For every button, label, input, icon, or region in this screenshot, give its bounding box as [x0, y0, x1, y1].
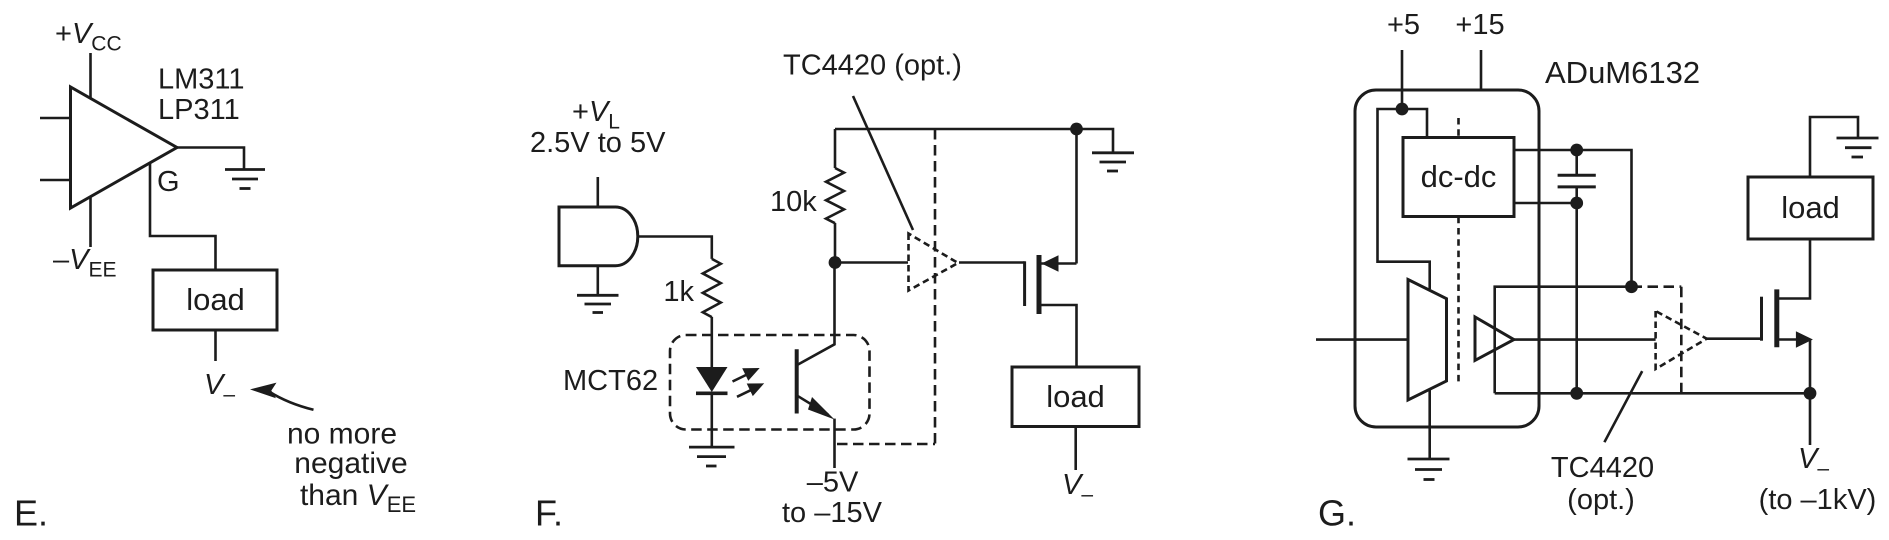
- svg-text:to –15V: to –15V: [782, 497, 883, 529]
- wire load to V-: [1074, 427, 1077, 471]
- wire V- rail down: [1575, 203, 1578, 393]
- wire -VEE supply stub: [89, 195, 92, 247]
- light arrow 1: [733, 375, 748, 382]
- note: no more negative than VEE: [287, 418, 416, 518]
- ground (load, circuit G): [1837, 138, 1879, 157]
- wire noninverting input: [40, 179, 71, 182]
- LED (optocoupler emitter): [696, 367, 728, 392]
- wire gate to ground: [596, 266, 599, 295]
- label 2.5V to 5V: [530, 127, 666, 159]
- wire trapezoid to ground: [1428, 390, 1431, 460]
- wire load top to ground: [1810, 117, 1858, 177]
- MOSFET Q3 gate plate: [1760, 297, 1763, 341]
- wire dc-dc top output: [1514, 150, 1632, 287]
- node V- label: [204, 369, 235, 406]
- driver trapezoid: [1408, 280, 1447, 401]
- svg-text:LP311: LP311: [158, 94, 240, 126]
- wire G pin to load: [150, 163, 216, 272]
- svg-text:+15: +15: [1455, 9, 1504, 41]
- dashed buffer TC4420 (opt.): [1656, 311, 1707, 369]
- svg-text:load: load: [1046, 379, 1105, 414]
- svg-text:MCT62: MCT62: [563, 365, 658, 397]
- wire 10k to node: [834, 223, 837, 264]
- wire +5 supply stub: [1401, 50, 1404, 109]
- label (opt.): [1567, 484, 1635, 516]
- svg-text:1k: 1k: [663, 276, 694, 308]
- rail junction dot: [1070, 123, 1083, 136]
- label +VCC: [55, 18, 122, 56]
- label 1k: [663, 276, 694, 308]
- label TC4420 (opt.): [783, 50, 962, 82]
- svg-text:load: load: [1781, 190, 1840, 225]
- isolation barrier dashed line lower: [1457, 217, 1460, 384]
- wire +5 node to driver supply: [1378, 109, 1430, 289]
- top rail wire: [835, 129, 1113, 153]
- junction node dot: [829, 256, 842, 269]
- ground (top rail): [1092, 153, 1134, 171]
- resistor 1k: [703, 259, 721, 317]
- dashed TC4420 package outline bottom: [837, 443, 935, 446]
- svg-text:10k: 10k: [770, 186, 817, 218]
- optocoupler MCT62 dashed outline: [670, 335, 870, 430]
- ADuM6132 package outline: [1355, 90, 1539, 427]
- junction dot +5: [1396, 103, 1409, 116]
- dashed TC4420 package outline right: [934, 129, 937, 444]
- isolation barrier dashed line upper: [1457, 118, 1460, 138]
- label E.: [14, 493, 48, 534]
- svg-text:LM311: LM311: [158, 64, 245, 96]
- label LP311: [158, 94, 240, 126]
- svg-text:ADuM6132: ADuM6132: [1545, 55, 1700, 90]
- dashed buffer TC4420: [909, 234, 959, 291]
- dashed TC4420 outline top: [1632, 285, 1682, 288]
- svg-text:TC4420: TC4420: [1551, 452, 1654, 484]
- ground (package): [1408, 459, 1450, 480]
- logic gate (driver): [559, 207, 638, 266]
- wire node to buffer input: [835, 261, 908, 264]
- svg-text:G: G: [157, 166, 180, 198]
- label LM311: [158, 64, 245, 96]
- svg-text:F.: F.: [535, 493, 563, 534]
- load box (circuit E): [153, 270, 277, 330]
- label G pin: [157, 166, 180, 198]
- wire gate output to 1k: [638, 237, 712, 259]
- MOSFET Q3 source lead with arrow: [1779, 338, 1810, 341]
- svg-text:2.5V to 5V: 2.5V to 5V: [530, 127, 666, 159]
- comparator U1 LM311/LP311: [71, 87, 178, 208]
- label MCT62: [563, 365, 658, 397]
- label +15: [1455, 9, 1504, 41]
- MOSFET Q2 drain lead: [1042, 305, 1077, 368]
- label 10k: [770, 186, 817, 218]
- label +VL: [572, 96, 620, 134]
- load box (circuit G): [1748, 177, 1873, 239]
- label -VEE: [53, 244, 117, 282]
- junction dot bottom rail: [1570, 387, 1583, 400]
- wire inverting input: [40, 117, 71, 120]
- dashed TC4420 outline right: [1680, 287, 1683, 394]
- light arrow 2: [737, 390, 752, 397]
- MOSFET Q3 channel bar: [1774, 289, 1779, 347]
- label TC4420: [1551, 452, 1654, 484]
- wire +5 node to dc-dc: [1402, 109, 1427, 138]
- svg-text:(opt.): (opt.): [1567, 484, 1635, 516]
- wire buffer to MOSFET gate: [959, 261, 1025, 264]
- label G.: [1318, 493, 1356, 534]
- svg-text:negative: negative: [294, 447, 407, 480]
- MOSFET Q2 source lead with arrow: [1042, 262, 1077, 265]
- wire output to ground: [177, 148, 244, 170]
- label -5V to -15V: [782, 467, 883, 530]
- wire +15 supply stub: [1480, 50, 1483, 90]
- label TC4420 (opt.) pointer: [1604, 371, 1642, 442]
- ground (LED): [689, 447, 735, 466]
- wire emitter to -5V: [833, 419, 836, 468]
- dc-dc converter box: [1403, 138, 1514, 217]
- svg-text:G.: G.: [1318, 493, 1356, 534]
- MOSFET Q2 gate plate: [1023, 261, 1026, 306]
- junction dot cap top: [1570, 144, 1583, 157]
- input wire: [1316, 338, 1408, 341]
- curved pointer arrow to V-: [269, 392, 314, 410]
- svg-text:E.: E.: [14, 493, 48, 534]
- svg-text:TC4420 (opt.): TC4420 (opt.): [783, 50, 962, 82]
- wire +VCC supply stub: [89, 53, 92, 100]
- wire V- node down: [1809, 393, 1812, 445]
- label F.: [535, 493, 563, 534]
- node V- label: [1798, 443, 1829, 480]
- pointer line TC4420 to buffer: [853, 96, 913, 230]
- wire TC4420 to MOSFET gate: [1707, 337, 1762, 340]
- wire LED cathode to ground: [710, 393, 713, 447]
- wire load to V-: [214, 330, 217, 361]
- svg-text:(to –1kV): (to –1kV): [1759, 484, 1877, 516]
- node V- label: [1062, 469, 1093, 506]
- wire rail to 10k: [834, 129, 837, 168]
- phototransistor collector: [798, 264, 835, 365]
- junction dot cap bottom: [1570, 197, 1583, 210]
- ground (gate): [577, 295, 619, 312]
- MOSFET Q3 drain lead: [1779, 239, 1810, 299]
- supply wire frame top/left: [1495, 287, 1632, 394]
- svg-text:load: load: [186, 282, 245, 317]
- MOSFET Q2 channel bar: [1037, 255, 1042, 314]
- resistor 10k: [826, 168, 844, 223]
- wire dc-dc bottom output: [1514, 202, 1577, 205]
- capacitor C1: [1575, 150, 1578, 175]
- phototransistor emitter: [798, 396, 828, 414]
- wire source to V- node: [1809, 340, 1812, 394]
- wire 1k to LED: [710, 317, 713, 368]
- wire +VL to gate: [596, 177, 599, 207]
- label +5: [1387, 9, 1420, 41]
- junction dot top rail: [1625, 280, 1638, 293]
- wire buffer output to TC4420 input: [1514, 338, 1656, 341]
- svg-text:no more: no more: [287, 418, 397, 451]
- label ADuM6132: [1545, 55, 1700, 90]
- wire source to top rail: [1075, 129, 1078, 264]
- svg-text:dc-dc: dc-dc: [1421, 159, 1497, 194]
- ground (comparator output): [225, 170, 265, 189]
- buffer triangle inside package: [1475, 317, 1514, 360]
- svg-text:+5: +5: [1387, 9, 1420, 41]
- bottom V- rail wire: [1495, 392, 1809, 395]
- svg-text:–5V: –5V: [807, 467, 859, 499]
- load box (circuit F): [1012, 367, 1139, 427]
- phototransistor Q1 base bar: [795, 349, 799, 413]
- junction dot V- node: [1804, 387, 1817, 400]
- label (to -1kV): [1759, 484, 1877, 516]
